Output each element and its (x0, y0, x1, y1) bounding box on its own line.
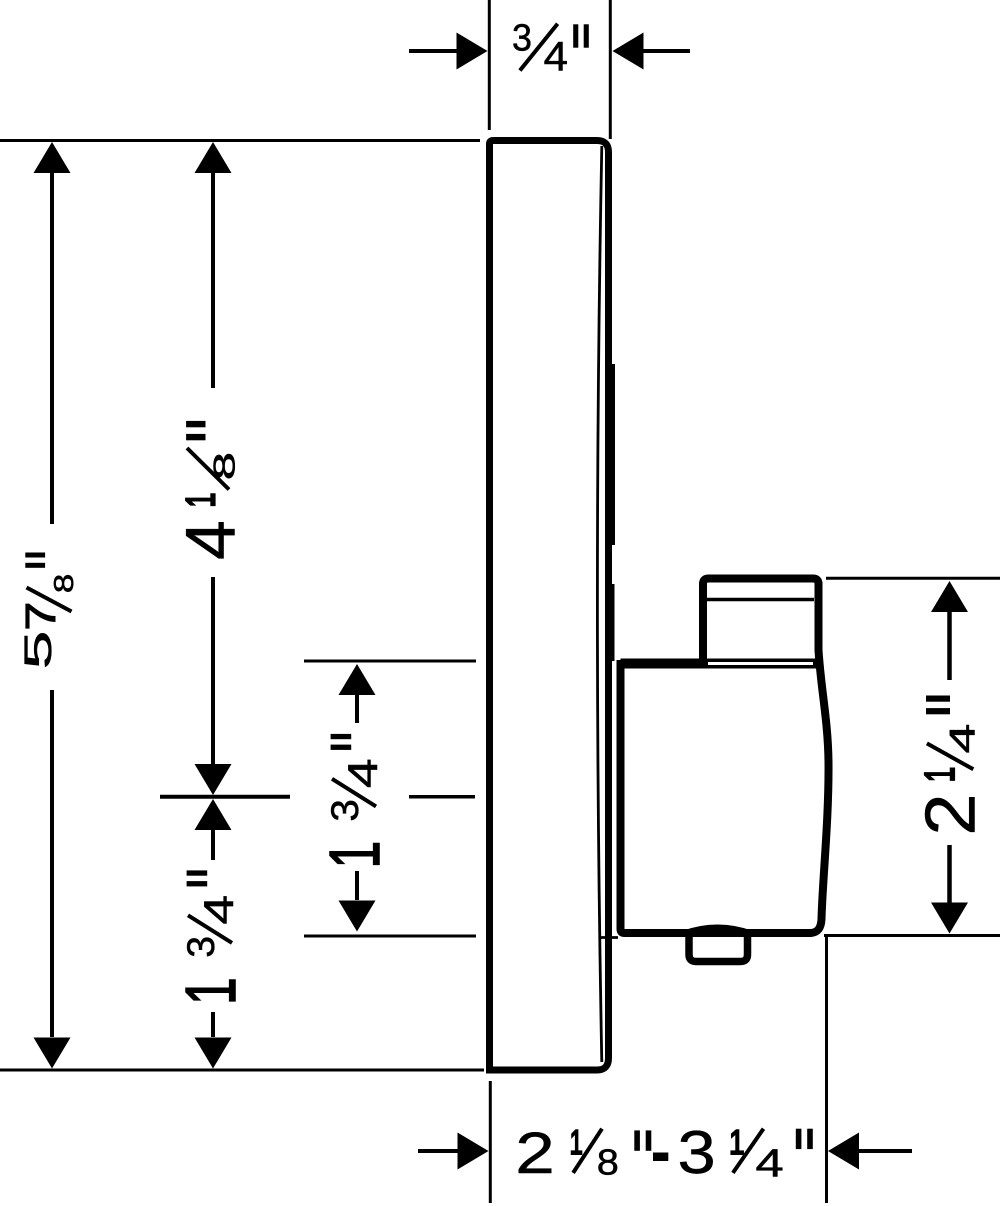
arrow bottom dim left (458, 1133, 489, 1170)
dim line 1-3/4 left upper segment (211, 830, 215, 860)
svg-text:5: 5 (17, 631, 60, 670)
label 4-1/8 fraction slash (187, 448, 229, 490)
dim line 1-3/4 middle upper segment (355, 694, 359, 723)
dim line 4-1/8 upper segment (211, 173, 215, 388)
svg-text:4: 4 (195, 895, 242, 925)
svg-text:8: 8 (597, 1142, 619, 1183)
dim line 5-7/8 upper segment (50, 173, 54, 524)
extension line knob top (middle dim upper) (304, 660, 476, 663)
dim line 2-1/4 lower segment (947, 845, 952, 903)
arrow 1-3/4 middle top (339, 664, 376, 695)
label 1-3/4 middle inch mark (331, 734, 352, 739)
dim line 1-3/4 left lower segment (211, 1012, 215, 1037)
arrow 5-7/8 top (34, 142, 71, 173)
arrow 1-3/4 left top (195, 799, 232, 830)
svg-text:4: 4 (755, 1141, 783, 1185)
label 5-7/8 fraction slash (27, 588, 72, 612)
arrow 3/4 left (457, 33, 488, 70)
handle top tab inner line (707, 598, 814, 602)
arrow 5-7/8 bottom (34, 1038, 71, 1069)
svg-text:8: 8 (48, 574, 79, 594)
handle body outline left-bottom (621, 660, 813, 933)
handle body top edge (621, 659, 819, 669)
svg-text:1: 1 (916, 767, 963, 782)
label 2-1/4 inch mark (926, 696, 950, 702)
label bottom inch mark a (634, 1130, 640, 1150)
svg-text:4: 4 (339, 758, 386, 788)
label 2-1/4 fraction slash (927, 743, 973, 769)
handle body top edge split (double line under tab) (708, 662, 813, 665)
arrow 2-1/4 bottom (931, 903, 968, 934)
svg-text:1: 1 (172, 977, 251, 1004)
extension line vertical right of 3/4 dim (609, 0, 612, 139)
label 3/4 fraction slash (520, 24, 558, 71)
svg-text:4: 4 (544, 34, 569, 80)
svg-text:3: 3 (512, 17, 532, 59)
extension line knob bottom (middle dim lower) (304, 935, 476, 938)
label bottom hyphen (653, 1153, 668, 1162)
svg-text:1: 1 (316, 841, 395, 868)
label 1-3/4 left fraction slash (188, 915, 232, 943)
svg-text:2: 2 (515, 1121, 555, 1186)
label 1-3/4 left inch mark (187, 870, 208, 875)
dim tail 3/4 right (643, 49, 690, 53)
extension line vertical left of 3/4 dim (488, 0, 491, 130)
dim tail 3/4 left (409, 49, 457, 53)
arrow bottom dim right (828, 1133, 859, 1170)
label bottom fraction slash b (733, 1129, 764, 1173)
arrow 4-1/8 bottom (195, 764, 232, 795)
svg-text:4: 4 (942, 724, 982, 754)
extension line bottom (plate bottom) (0, 1069, 484, 1072)
dim line 2-1/4 upper segment (947, 612, 952, 680)
svg-text:3: 3 (678, 1118, 716, 1186)
handle top tab outline (703, 579, 819, 666)
extension line right lower (body bottom) (824, 934, 1000, 937)
plate front face edge line (597, 146, 601, 1062)
arrow 4-1/8 top (195, 142, 232, 173)
center tick line left segment (160, 795, 290, 799)
handle bottom tab arc (683, 927, 752, 933)
extension line vertical below plate (489, 1081, 492, 1203)
arrow 1-3/4 middle bottom (339, 901, 376, 932)
label 3/4 inch mark (573, 24, 578, 47)
svg-text:3: 3 (324, 799, 367, 821)
label 4-1/8 inch mark (186, 421, 205, 427)
svg-text:4: 4 (171, 520, 250, 560)
arrow 2-1/4 top (931, 581, 968, 612)
center tick line right segment (409, 795, 475, 799)
svg-text:3: 3 (180, 936, 223, 958)
dim tail bottom left (418, 1149, 458, 1153)
label 5-7/8 inch mark (25, 553, 45, 558)
dim line 1-3/4 middle lower segment (355, 871, 359, 900)
label bottom inch mark b (796, 1129, 802, 1149)
label 1-3/4 middle fraction slash (332, 779, 376, 807)
extension line top (plate top) (0, 139, 480, 142)
label bottom fraction slash a (573, 1129, 602, 1173)
svg-text:1: 1 (178, 493, 224, 508)
arrow 1-3/4 left bottom (195, 1038, 232, 1069)
extension line right upper (tab top) (826, 577, 1000, 580)
handle right edge (tab+body continuous) (810, 582, 829, 933)
dim tail bottom right (858, 1149, 912, 1153)
dim line 4-1/8 lower segment (211, 577, 215, 765)
arrow 3/4 right (613, 33, 644, 70)
handle bottom tab outline (689, 935, 748, 962)
svg-text:8: 8 (209, 452, 242, 480)
plate edge bump lower (605, 584, 615, 661)
wall plate outline (490, 141, 609, 1071)
dim line 5-7/8 lower segment (50, 690, 54, 1037)
extension line vertical below knob (825, 936, 828, 1203)
svg-text:1: 1 (570, 1124, 583, 1162)
plate edge bump upper (605, 364, 615, 545)
extension line sliver between plate and knob (599, 936, 618, 939)
svg-text:2: 2 (911, 793, 990, 835)
